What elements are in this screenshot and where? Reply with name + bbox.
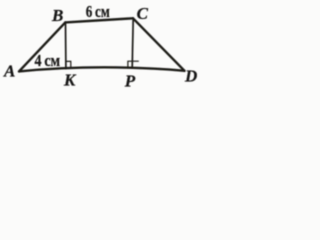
right-angle mark at K xyxy=(66,61,71,68)
svg-text:C: C xyxy=(137,4,149,23)
svg-text:D: D xyxy=(184,67,197,86)
svg-text:6 см: 6 см xyxy=(86,2,110,21)
height CP xyxy=(132,18,133,67)
side BC (top, 6 cm) xyxy=(65,18,133,22)
svg-text:K: K xyxy=(63,70,77,89)
side CD (right slant) xyxy=(133,18,185,71)
svg-text:B: B xyxy=(51,6,63,25)
svg-text:4 см: 4 см xyxy=(35,51,61,70)
height BK xyxy=(65,22,67,68)
side AD (base) xyxy=(19,67,185,71)
svg-text:P: P xyxy=(124,71,136,90)
right-angle mark at P xyxy=(128,61,138,68)
side AB (left slant) xyxy=(19,22,65,71)
svg-text:A: A xyxy=(3,62,15,81)
